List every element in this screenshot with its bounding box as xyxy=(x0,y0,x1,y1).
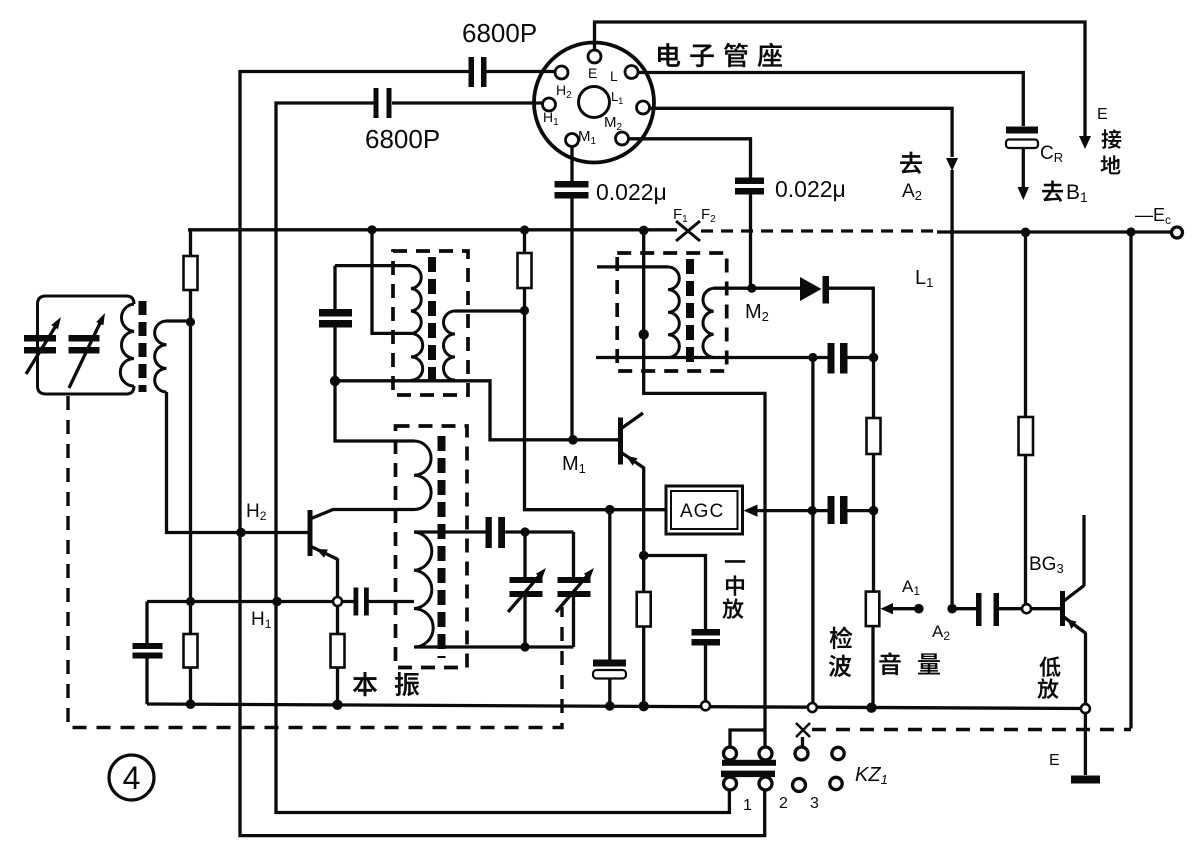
capacitor C 6800P upper xyxy=(469,57,475,87)
wire switch contact3 stub xyxy=(801,737,804,747)
node E ground arrow xyxy=(1079,136,1091,149)
wire AGC input from detector xyxy=(757,509,874,512)
transistor Q BG3 xyxy=(1060,591,1065,626)
resistor R M1 emitter xyxy=(637,592,651,627)
wire volume wiper to A1 xyxy=(892,607,915,610)
wire top bus from tube pin E to right corner xyxy=(595,22,1086,137)
capacitor C left bypass xyxy=(133,643,163,649)
node to-B1 arrow xyxy=(1018,187,1030,200)
pin E xyxy=(588,50,601,63)
core antenna transformer xyxy=(139,301,147,392)
wire IF1 bottom to M1 base xyxy=(335,381,618,440)
wire H2 line down to band switch xyxy=(240,72,765,836)
wire secondary top to R junction xyxy=(167,319,191,322)
inductor antenna primary coil xyxy=(120,304,134,386)
resistor R volume potentiometer xyxy=(866,592,880,627)
capacitor variable osc C1 xyxy=(523,532,526,647)
wire IF2 bottom rail xyxy=(596,356,874,359)
switch KZ1 contact row2 xyxy=(724,777,737,790)
svg-text:6800P: 6800P xyxy=(462,18,537,48)
capacitor C osc series xyxy=(486,517,492,548)
svg-text:B1: B1 xyxy=(1066,181,1088,205)
wire AGC rail resistor from bus xyxy=(525,230,667,510)
node AGC arrow xyxy=(744,505,758,517)
circled figure number 4 xyxy=(109,755,154,800)
capacitor C detector 1 xyxy=(828,343,835,374)
svg-text:L: L xyxy=(610,68,618,84)
label AF amp xyxy=(1037,656,1060,699)
pin L xyxy=(625,66,638,79)
inductor IF1 primary lower xyxy=(411,334,423,381)
capacitor variable C1b plates xyxy=(69,335,100,342)
wire switch branch to contact 1 xyxy=(730,730,765,747)
wire L pin to CR branch xyxy=(638,73,1023,127)
svg-text:H2: H2 xyxy=(246,501,267,523)
inductor IF2 secondary xyxy=(703,288,714,357)
wire -Ec right feeder down xyxy=(1129,232,1132,729)
svg-text:2: 2 xyxy=(779,795,788,812)
svg-text:H2: H2 xyxy=(556,82,572,101)
node junction dots xyxy=(367,225,376,234)
resistor R BG3 bias xyxy=(1019,417,1034,455)
svg-text:A2: A2 xyxy=(902,181,922,203)
capacitor variable C1b arrow xyxy=(69,321,101,388)
capacitor C emitter tap xyxy=(354,588,359,616)
capacitor C AGC coupling xyxy=(828,496,835,524)
wire A2 to BG3 base through cap xyxy=(957,607,1061,610)
capacitor C 0.022u right xyxy=(735,178,764,185)
wire osc collector to feedback winding xyxy=(333,508,415,511)
resistor R detector load xyxy=(867,418,881,454)
resistor R AGC rail xyxy=(518,253,532,288)
pin right xyxy=(637,101,650,114)
svg-text:KZ1: KZ1 xyxy=(855,764,888,787)
resistor R bottom-left xyxy=(184,634,198,668)
wire left bias resistor chain xyxy=(189,230,192,705)
capacitor C AF coupling xyxy=(976,593,982,626)
svg-text:E: E xyxy=(588,65,597,81)
oscillator coil box xyxy=(396,426,468,668)
svg-text:A1: A1 xyxy=(902,577,920,598)
wire IF1 tap to -Ec bus xyxy=(372,230,411,334)
wire H1 line down to band switch xyxy=(276,103,729,813)
core IF1 xyxy=(428,257,436,389)
wire 0.022 cap down to M1 base junction xyxy=(570,199,573,440)
wire BG3 emitter to ground xyxy=(1084,633,1087,775)
wire IF1 left branch with cap xyxy=(335,266,414,441)
wire 0.022 cap down to diode line xyxy=(749,195,752,289)
wire bottom ground bus xyxy=(147,704,1085,709)
switch KZ1 contact row1 xyxy=(724,747,737,760)
svg-text:4: 4 xyxy=(123,760,141,796)
svg-text:E: E xyxy=(1097,106,1108,123)
pin H1 xyxy=(543,98,556,111)
wire BG3 collector up xyxy=(1082,515,1085,586)
transistor Q oscillator xyxy=(308,510,313,556)
wire M1 emitter down to resistor xyxy=(642,467,645,706)
capacitor C electrolytic filter xyxy=(593,660,626,667)
svg-text:A2: A2 xyxy=(932,622,950,643)
capacitor variable osc C2 xyxy=(572,532,575,647)
wire detector load chain xyxy=(871,358,875,708)
switch KZ1 cross xyxy=(796,723,810,737)
capacitor C 0.022u left xyxy=(555,181,589,188)
wire IF2 feed line through box xyxy=(644,230,765,747)
capacitor CR xyxy=(1006,127,1038,134)
ground E xyxy=(1071,776,1100,784)
svg-text:0.022μ: 0.022μ xyxy=(596,179,667,205)
node to-A2 arrow xyxy=(946,158,958,171)
wire osc collector-line decouple down xyxy=(608,510,611,706)
svg-text:3: 3 xyxy=(810,795,819,812)
capacitor variable C1a arrow xyxy=(26,324,57,374)
wire secondary bottom to oscillator base xyxy=(167,392,308,533)
tube socket center hole xyxy=(579,87,610,118)
label volume xyxy=(879,652,940,675)
capacitor C 6800P lower xyxy=(374,88,379,118)
svg-text:L1: L1 xyxy=(915,267,933,290)
inductor antenna secondary coil xyxy=(155,321,167,392)
label to A2 xyxy=(900,152,922,174)
svg-text:6800P: 6800P xyxy=(365,124,440,154)
wire right socket pin to A2 terminal xyxy=(650,108,953,604)
core osc coil xyxy=(438,436,446,658)
wire BG3 bias resistor from bus xyxy=(1024,232,1027,604)
wire H2 pin to 6800P cap xyxy=(487,70,556,73)
label first IF amp xyxy=(722,560,745,619)
wire osc emitter down xyxy=(336,559,339,705)
IF transformer T2 box xyxy=(393,251,468,395)
wire IF2 primary top stub xyxy=(597,265,668,268)
wire H1 pin to 6800P cap xyxy=(392,101,543,104)
svg-text:0.022μ: 0.022μ xyxy=(775,176,846,202)
wire gang dashed link right xyxy=(812,728,1131,731)
node open junctions xyxy=(333,597,342,606)
wire osc tank top through series cap xyxy=(414,530,574,533)
wire M1 pin down to 0.022 cap xyxy=(570,147,573,182)
pin H2 xyxy=(555,66,568,79)
svg-text:M2: M2 xyxy=(745,301,769,324)
svg-text:E: E xyxy=(1049,752,1060,769)
wire M2 pin right and down to 0.022 cap xyxy=(629,139,751,178)
wire -Ec bus solid left part xyxy=(188,228,677,231)
resistor R top-left xyxy=(184,256,198,290)
wire IF1 secondary top to AGC rail xyxy=(455,309,525,312)
capacitor C across IF1 primary xyxy=(319,309,352,317)
diode D detector xyxy=(800,277,822,301)
wire gang dashed link left xyxy=(68,396,562,728)
wire osc emitter tap with cap xyxy=(342,600,414,603)
capacitor variable C1a plates xyxy=(24,335,56,342)
wire osc tank bottom xyxy=(414,645,574,648)
svg-text:M2: M2 xyxy=(604,114,623,133)
switch KZ1 wiper bars xyxy=(722,760,776,766)
wire bypass cap to bus xyxy=(704,646,707,702)
wire M1 emitter bypass branch xyxy=(644,556,706,630)
wire emitter row to bypass cap xyxy=(147,602,334,644)
wire -Ec bus dashed middle part xyxy=(701,229,937,232)
svg-text:CR: CR xyxy=(1040,143,1063,165)
inductor IF1 primary upper xyxy=(411,266,421,334)
wire diode output down xyxy=(829,288,873,357)
block AGC box xyxy=(666,486,743,534)
inductor IF2 primary xyxy=(668,267,679,358)
svg-text:M1: M1 xyxy=(562,453,586,476)
label to B1 going xyxy=(1042,180,1063,201)
wire detector filter rail down xyxy=(811,358,814,704)
svg-text:—Ec: —Ec xyxy=(1135,205,1171,227)
svg-text:M1: M1 xyxy=(578,128,597,147)
label local oscillator xyxy=(353,672,420,696)
resistor R osc emitter xyxy=(331,634,345,668)
svg-text:AGC: AGC xyxy=(680,501,724,522)
wire IF2 secondary top to diode xyxy=(714,287,801,290)
transistor Q M1 mixer xyxy=(618,418,623,465)
svg-text:1: 1 xyxy=(743,797,752,814)
capacitor C M1 emitter bypass xyxy=(692,629,721,636)
svg-text:H1: H1 xyxy=(543,109,559,128)
svg-text:H1: H1 xyxy=(251,609,272,631)
wire IF1 primary top branch xyxy=(335,264,411,267)
IF transformer T3 box xyxy=(617,253,727,371)
wire -Ec bus solid right part xyxy=(937,230,1172,233)
node -Ec terminal xyxy=(1172,227,1183,238)
wire bypass cap to ground bus xyxy=(145,659,148,705)
inductor osc feedback winding xyxy=(414,441,431,510)
label detector xyxy=(829,626,853,677)
wire CR to B1 arrow xyxy=(1022,148,1025,187)
tube socket outer circle xyxy=(534,43,654,163)
svg-text:F1: F1 xyxy=(673,206,688,225)
switch F1 F2 cross xyxy=(676,221,700,241)
svg-text:L1: L1 xyxy=(611,89,623,106)
svg-text:F2: F2 xyxy=(701,206,716,225)
tuning gang box xyxy=(38,296,135,394)
inductor IF1 secondary xyxy=(444,311,455,380)
label tube socket xyxy=(658,43,782,68)
label E ground CJK xyxy=(1101,129,1122,174)
core IF2 xyxy=(686,259,694,365)
pin M2 xyxy=(616,132,629,145)
inductor osc tank winding xyxy=(414,532,433,647)
svg-text:BG3: BG3 xyxy=(1029,554,1064,576)
pin M1 xyxy=(566,134,579,147)
